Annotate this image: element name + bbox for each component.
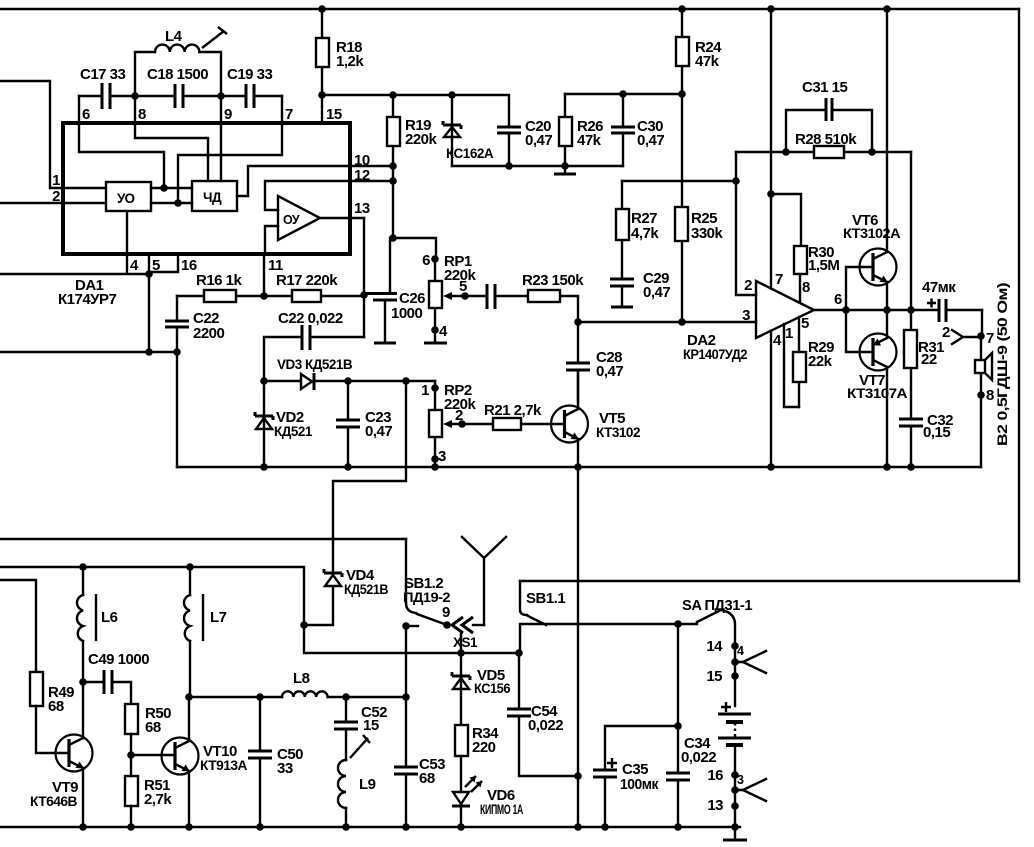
svg-text:2: 2 xyxy=(744,277,752,294)
wire VT5 emitter to ground rail xyxy=(577,439,579,467)
svg-text:КТ3107А: КТ3107А xyxy=(847,386,908,401)
inductor L9 xyxy=(338,760,376,827)
svg-text:0,47: 0,47 xyxy=(365,423,392,440)
svg-text:4: 4 xyxy=(737,644,744,658)
wire pin 8 internal to ChD xyxy=(135,96,208,181)
capacitor C32 0.15 xyxy=(899,412,953,467)
capacitor C29 0.47 xyxy=(610,270,670,307)
wire VT10 base xyxy=(131,754,175,756)
wire VT6 collector to top rail xyxy=(886,9,888,252)
svg-text:9: 9 xyxy=(224,106,232,123)
wire VT10 collector xyxy=(188,697,190,741)
node pin7 column top rail xyxy=(767,5,775,13)
connector pin4 battery xyxy=(731,644,766,673)
svg-text:2: 2 xyxy=(52,188,60,205)
wire DA2 pin7 supply column x771 xyxy=(770,9,772,288)
node pin4 ground rail xyxy=(767,463,775,471)
resistor R34 220 xyxy=(455,725,499,791)
node rail VT9 xyxy=(79,823,87,831)
node rail C35 xyxy=(601,823,609,831)
trimmer arrow C52/L9 xyxy=(350,735,370,758)
block UO inside DA1 xyxy=(106,182,151,211)
node C54 to ground vertical xyxy=(574,772,582,780)
node RP2 pin3 xyxy=(431,455,439,463)
node pin10 tap xyxy=(389,162,397,170)
svg-text:КТ3102: КТ3102 xyxy=(596,425,640,440)
wire R27 top to DA2 pin2 branch y181 xyxy=(622,180,736,182)
svg-text:5: 5 xyxy=(152,257,160,274)
wire op-amp output to pin 13 xyxy=(320,217,364,219)
svg-text:8: 8 xyxy=(138,106,146,123)
capacitor C35 100mk xyxy=(593,758,659,827)
diode VD2 KD521 xyxy=(255,381,313,467)
capacitor C26 1000 xyxy=(366,238,425,343)
node L4/C17/C18 pin8 xyxy=(131,92,139,100)
switch SB1.2 blade xyxy=(403,575,450,625)
svg-text:68: 68 xyxy=(419,770,435,787)
resistor R50 68 xyxy=(125,704,171,755)
svg-text:4: 4 xyxy=(439,323,448,340)
node pin12 tap xyxy=(389,177,397,185)
svg-text:1,5M: 1,5M xyxy=(808,257,839,274)
node C26 bus xyxy=(389,234,397,242)
svg-text:4,7k: 4,7k xyxy=(631,225,659,242)
node rail VT10 xyxy=(185,823,193,831)
svg-text:16: 16 xyxy=(707,767,723,784)
wire C35 branch y726 xyxy=(605,726,678,770)
wire pin13 vertical x364 xyxy=(363,218,365,337)
svg-text:14: 14 xyxy=(706,638,723,655)
capacitor C22 0.022 xyxy=(264,310,364,381)
svg-text:5: 5 xyxy=(801,315,809,332)
wire zener bottom rail y166 xyxy=(452,165,623,167)
resistor R17 220k xyxy=(264,272,364,302)
transistor VT6 KT3102A xyxy=(843,212,901,286)
wire VT7 collector to ground rail xyxy=(886,367,888,467)
node wire13 xyxy=(707,797,738,814)
node RP2 pin1 xyxy=(431,384,439,392)
node output base tee xyxy=(842,306,850,314)
node L8/C52 xyxy=(342,693,350,701)
svg-text:ПД19-2: ПД19-2 xyxy=(403,590,450,605)
wire pin 16 elbow to pin5 node xyxy=(150,254,178,272)
svg-text:R16 1k: R16 1k xyxy=(196,272,243,289)
svg-text:L9: L9 xyxy=(359,776,376,793)
node pin11 junction R16/R17 xyxy=(260,254,268,300)
svg-text:L8: L8 xyxy=(293,670,310,687)
wire battery switched column x678 xyxy=(677,624,679,773)
node speaker pin8 xyxy=(977,387,994,404)
wire pin 5 down to AGC rail xyxy=(148,254,150,352)
wire supply branch y95 xyxy=(322,95,509,127)
svg-text:SB1.1: SB1.1 xyxy=(526,590,565,607)
resistor R16 1k xyxy=(177,272,264,302)
resistor R29 22k xyxy=(793,317,834,407)
svg-text:0,47: 0,47 xyxy=(596,363,623,380)
antenna W1 xyxy=(462,537,506,625)
pin number labels DA1 bottom xyxy=(130,257,283,274)
svg-text:КР1407УД2: КР1407УД2 xyxy=(683,347,747,362)
svg-text:R28 510k: R28 510k xyxy=(795,131,857,148)
svg-text:R23 150k: R23 150k xyxy=(522,272,584,289)
node SA feed xyxy=(674,620,682,628)
pin number labels DA1 left xyxy=(52,172,60,205)
node C30 top xyxy=(619,90,627,98)
svg-text:4: 4 xyxy=(130,257,139,274)
svg-text:КИПМО 1А: КИПМО 1А xyxy=(480,802,523,817)
wire ChD output to pin 10 xyxy=(237,166,350,196)
svg-text:7: 7 xyxy=(775,271,783,288)
node ground rail RP2 xyxy=(431,463,439,471)
svg-text:8: 8 xyxy=(802,279,810,296)
zener VD1 KS162A xyxy=(443,95,494,166)
wire left input to pin 1 xyxy=(0,81,107,188)
wire top supply rail xyxy=(0,8,1019,10)
node wire16 xyxy=(707,767,738,784)
resistor R23 150k xyxy=(522,272,584,322)
svg-text:КС162А: КС162А xyxy=(446,146,494,161)
wire audio ground long vertical x577 xyxy=(577,467,579,828)
svg-text:КТ3102А: КТ3102А xyxy=(843,226,901,241)
svg-text:1,2k: 1,2k xyxy=(336,53,364,70)
node C31 left xyxy=(782,148,790,156)
inductor L7 xyxy=(184,567,227,696)
node SB1.1 output on y653 xyxy=(515,649,523,657)
wire DA2 output y310 xyxy=(814,309,938,311)
node connector pin7 xyxy=(977,330,994,347)
battery GB xyxy=(718,702,751,775)
wire pin 7 internal to lower link xyxy=(178,96,282,203)
inductor L6 xyxy=(77,567,118,682)
node rail C53 xyxy=(402,823,410,831)
wire branch to R30 xyxy=(771,194,801,246)
node rail VD6 xyxy=(457,823,465,831)
svg-text:15: 15 xyxy=(706,668,722,685)
svg-text:КС156: КС156 xyxy=(474,681,511,696)
op-amp OU inside DA1 xyxy=(278,196,320,240)
connector pin3 battery xyxy=(731,773,766,801)
resistor R19 220k xyxy=(387,95,438,166)
svg-text:15: 15 xyxy=(363,717,379,734)
label DA1 designator xyxy=(58,277,117,308)
svg-text:0,47: 0,47 xyxy=(643,284,670,301)
capacitor C22 2200 xyxy=(165,296,225,352)
node C23 top xyxy=(344,377,352,385)
speaker B2 xyxy=(975,336,992,395)
svg-text:C31 15: C31 15 xyxy=(802,79,848,96)
svg-text:22k: 22k xyxy=(808,353,833,370)
wire DA2 pin4 to ground rail xyxy=(770,331,772,467)
capacitor C34 0.022 xyxy=(666,735,716,827)
label B2 speaker rotated xyxy=(995,283,1010,446)
svg-text:100мк: 100мк xyxy=(620,776,659,793)
wire output to connector pin7 xyxy=(981,310,983,336)
capacitor C23 0.47 xyxy=(336,381,392,467)
wire transmit feed x406 upper xyxy=(333,381,406,573)
svg-text:SA ПД31-1: SA ПД31-1 xyxy=(682,597,752,614)
svg-text:13: 13 xyxy=(707,797,723,814)
node C32 ground rail xyxy=(907,463,915,471)
capacitor C52 15 xyxy=(334,697,387,760)
node SB1.2 pole xyxy=(443,621,451,629)
transistor VT7 KT3107A xyxy=(847,334,908,402)
svg-text:7: 7 xyxy=(986,330,994,347)
potentiometer RP2 220k xyxy=(421,381,476,467)
node R19 top xyxy=(389,91,397,99)
svg-text:L7: L7 xyxy=(210,609,227,626)
capacitor C20 0.47 xyxy=(497,118,552,166)
wire collector node to L8 xyxy=(189,696,282,698)
svg-text:6: 6 xyxy=(834,291,842,308)
node wire15 xyxy=(706,668,738,685)
node RP1 pin4 xyxy=(431,326,439,334)
node rail L9 xyxy=(342,823,350,831)
node pin4 elbow xyxy=(145,270,153,278)
pin number labels DA1 right xyxy=(354,152,370,217)
svg-text:9: 9 xyxy=(442,604,450,621)
svg-text:68: 68 xyxy=(48,698,64,715)
wire battery to bottom rail xyxy=(734,775,736,827)
wire speaker return to ground rail xyxy=(980,395,982,467)
node VT7 ground rail xyxy=(883,463,891,471)
wire left end of ground rail xyxy=(176,352,178,467)
svg-text:C19 33: C19 33 xyxy=(227,66,273,83)
node VD3 wire to transmit feed xyxy=(402,377,410,385)
svg-text:1: 1 xyxy=(421,382,429,399)
svg-text:15: 15 xyxy=(326,106,342,123)
node VT9 collector junction xyxy=(79,678,87,686)
svg-text:47k: 47k xyxy=(577,132,602,149)
diode VD4 KD521V xyxy=(324,567,389,597)
node L6 top xyxy=(79,563,87,571)
wire right border down to SB1.1 feed xyxy=(1018,9,1020,581)
capacitor C18 1500 xyxy=(135,66,221,108)
wire left input to pin 2 xyxy=(0,202,107,204)
node emitters on output xyxy=(883,306,891,314)
inductor L4 xyxy=(135,28,221,96)
node ground rail VD2 xyxy=(260,463,268,471)
inductor L8 xyxy=(282,670,406,697)
wire DA2 pin3 input y322 xyxy=(578,321,756,323)
wire base column VT6/VT7 xyxy=(846,267,873,352)
resistor R28 510k xyxy=(795,131,857,158)
resistor R31 22 xyxy=(904,310,944,419)
svg-text:B2 0,5ГДШ-9 (50 Ом): B2 0,5ГДШ-9 (50 Ом) xyxy=(995,283,1010,446)
svg-text:КТ913А: КТ913А xyxy=(200,758,248,773)
node VD3 anode xyxy=(260,377,268,385)
svg-text:0,15: 0,15 xyxy=(923,424,950,441)
wire VT9 collector xyxy=(82,682,84,738)
node RP1 pin6 xyxy=(431,255,439,263)
node pin7/R30 branch xyxy=(767,190,775,198)
svg-text:13: 13 xyxy=(354,200,370,217)
node rail audio ground xyxy=(574,823,582,831)
svg-text:C49 1000: C49 1000 xyxy=(88,651,149,668)
wire UO-ChD lower link xyxy=(151,202,192,204)
svg-text:C22 0,022: C22 0,022 xyxy=(278,310,343,327)
svg-text:3: 3 xyxy=(737,773,744,787)
wire DA2 pin2 column x736 xyxy=(736,152,756,295)
svg-text:16: 16 xyxy=(181,257,197,274)
wire pin 15 stub xyxy=(321,95,323,123)
node L7 top xyxy=(186,563,194,571)
node junction pin6 net xyxy=(160,184,168,192)
svg-text:3: 3 xyxy=(438,448,446,465)
svg-text:L6: L6 xyxy=(101,609,118,626)
resistor R30 1.5M xyxy=(794,244,839,301)
wire rail y567 xyxy=(0,567,304,625)
node ground rail C23 xyxy=(344,463,352,471)
wire bottom rail y827 xyxy=(0,826,740,828)
node junction pin7 net xyxy=(174,199,182,207)
switch SA PD31-1 xyxy=(682,597,752,646)
svg-text:XS1: XS1 xyxy=(453,635,478,650)
wire UO-ChD upper link xyxy=(151,187,192,189)
resistor R51 2.7k xyxy=(125,755,172,827)
svg-text:220: 220 xyxy=(472,739,496,756)
node VT6 supply top rail xyxy=(883,5,891,13)
wire rail y539 xyxy=(0,538,406,540)
svg-text:К174УР7: К174УР7 xyxy=(58,291,117,308)
wire receiver input y653 xyxy=(304,625,519,653)
svg-text:4: 4 xyxy=(773,332,782,349)
capacitor C54 0.022 xyxy=(507,653,578,776)
node R18 bottom / pin15 xyxy=(318,91,326,99)
node pin2 column / R27 wire xyxy=(732,177,740,185)
block ChD inside DA1 xyxy=(192,181,237,211)
wire VT6 emitter to output xyxy=(886,282,888,310)
resistor R49 68 xyxy=(30,672,74,753)
node zener top xyxy=(448,91,456,99)
node RP2 wiper pin2 xyxy=(458,420,466,428)
wire pin 12 internal to op-amp plus input xyxy=(265,181,350,210)
wire pin 9 internal to ChD xyxy=(220,96,222,181)
wire pin 4 to left edge xyxy=(0,211,149,274)
node wire14 xyxy=(706,638,738,655)
ground symbol battery xyxy=(723,827,747,840)
ground stub at zener rail xyxy=(554,166,576,174)
svg-text:6: 6 xyxy=(82,106,90,123)
svg-text:1: 1 xyxy=(52,172,60,189)
node ground rail VT5 xyxy=(574,463,582,471)
wire XS1 socket contact xyxy=(460,634,462,653)
capacitor 47mk electrolytic xyxy=(922,279,982,322)
svg-text:0,47: 0,47 xyxy=(525,132,552,149)
wire VT9 emitter xyxy=(82,768,84,827)
wire VD4 bottom link xyxy=(304,587,333,625)
svg-text:ЧД: ЧД xyxy=(203,190,222,205)
capacitor C30 0.47 xyxy=(611,94,664,166)
node AGC rail C22 xyxy=(173,348,181,356)
wire ground rail y467 xyxy=(177,466,981,468)
node rail battery xyxy=(731,823,739,831)
svg-text:КД521: КД521 xyxy=(274,424,313,439)
wire VT7 emitter to output xyxy=(886,310,888,338)
node VD4 link xyxy=(300,621,308,629)
zener VD5 KS156 xyxy=(452,653,511,725)
svg-text:VD3 КД521В: VD3 КД521В xyxy=(277,357,353,372)
capacitor C27 unmarked xyxy=(465,284,528,309)
svg-text:ОУ: ОУ xyxy=(283,213,300,227)
resistor R24 47k xyxy=(676,9,722,94)
pin labels DA2 xyxy=(742,271,842,349)
transistor VT10 KT913A xyxy=(162,738,248,775)
node VT10 base junction xyxy=(127,751,135,759)
svg-text:КД521В: КД521В xyxy=(344,582,389,597)
wire pins10/12 bus x393 xyxy=(350,166,393,238)
wire DA2 pin1 down to R29 bottom xyxy=(784,324,799,407)
wire AGC rail y352 xyxy=(0,351,177,353)
svg-text:1: 1 xyxy=(785,325,793,342)
LED VD6 KIPM0 1A xyxy=(452,776,523,827)
svg-text:C17 33: C17 33 xyxy=(80,66,126,83)
pin number labels DA1 top xyxy=(82,106,342,123)
svg-text:2,7k: 2,7k xyxy=(144,791,172,808)
svg-text:1000: 1000 xyxy=(391,305,423,322)
trimmer arrow of L4 xyxy=(202,27,227,48)
node AGC rail pin5 xyxy=(145,348,153,356)
svg-text:R21 2,7k: R21 2,7k xyxy=(484,402,542,419)
wire VT5 collector xyxy=(577,370,579,409)
capacitor C50 33 xyxy=(248,697,303,827)
svg-text:47мк: 47мк xyxy=(922,279,956,296)
node rail R51 xyxy=(127,823,135,831)
node C35 top right xyxy=(674,722,682,730)
wire SB1.1 lower wire y624 xyxy=(520,624,697,653)
node SB1.2 lower contact xyxy=(402,622,418,630)
svg-text:47k: 47k xyxy=(695,53,720,70)
connector XS1 plug xyxy=(452,617,484,650)
switch SB1.1 xyxy=(520,581,565,625)
node pin13/R17/C26 xyxy=(360,291,368,299)
svg-text:3: 3 xyxy=(742,307,750,324)
wire battery column top xyxy=(734,646,736,706)
node L8 right / C53 xyxy=(402,693,410,701)
wire VT10 emitter xyxy=(188,771,190,827)
wire transmit feed x406 lower xyxy=(405,626,407,697)
svg-text:2200: 2200 xyxy=(193,325,225,342)
svg-text:0,47: 0,47 xyxy=(637,132,664,149)
op-amp DA2 KR1407UD2 xyxy=(683,281,814,362)
resistor R21 2.7k xyxy=(462,402,564,430)
svg-text:68: 68 xyxy=(145,719,161,736)
resistor R26 47k xyxy=(559,94,603,166)
node R25 bottom on pin3 wire xyxy=(678,318,686,326)
transistor VT5 KT3102 xyxy=(551,406,640,443)
wire rail y539 drop to SB1.2 xyxy=(405,539,407,603)
node XS1 on y653 xyxy=(457,649,465,657)
capacitor C53 68 xyxy=(394,697,445,827)
svg-text:330k: 330k xyxy=(691,225,724,242)
capacitor C31 15 xyxy=(786,79,872,152)
wire lower left rail y580 to R49 xyxy=(0,580,36,672)
svg-text:33: 33 xyxy=(277,760,293,777)
wire pin 6 internal to upper link xyxy=(79,96,164,188)
node feedback/zobel on output xyxy=(907,306,915,314)
svg-text:7: 7 xyxy=(285,106,293,123)
resistor R18 1.2k xyxy=(316,9,364,95)
node R18 top rail xyxy=(318,5,326,13)
capacitor C17 33 xyxy=(79,66,135,109)
potentiometer RP1 220k xyxy=(422,252,476,343)
svg-text:0,022: 0,022 xyxy=(681,749,716,766)
wire feedback to output x911 xyxy=(910,152,912,310)
resistor R27 4.7k xyxy=(616,181,659,278)
wire bus to RP1 top xyxy=(393,238,436,259)
IC DA1 body xyxy=(63,123,350,254)
svg-text:2: 2 xyxy=(942,324,950,341)
svg-text:L4: L4 xyxy=(165,28,183,45)
